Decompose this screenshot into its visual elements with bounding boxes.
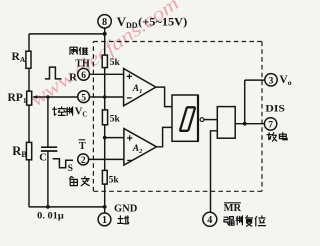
wire divider rail — [104, 34, 106, 213]
pin 7 circle — [264, 118, 276, 130]
svg-text:C: C — [39, 153, 47, 164]
wire VDD top — [29, 33, 105, 35]
svg-text:7: 7 — [268, 121, 273, 131]
svg-text:5: 5 — [81, 93, 86, 103]
label MR bar — [224, 202, 241, 204]
svg-text:T: T — [79, 141, 86, 152]
dashed IC boundary box — [93, 42, 262, 192]
wire A2 output — [157, 127, 173, 146]
label ground chinese — [118, 216, 129, 224]
pin 3 circle — [265, 74, 277, 86]
resistor RA — [26, 51, 31, 68]
svg-text:MR: MR — [224, 203, 242, 214]
wire pin8 stem — [104, 28, 106, 34]
wire A1 output — [156, 87, 172, 107]
wire Vo branch — [245, 80, 265, 124]
svg-text:1: 1 — [102, 215, 107, 226]
svg-text:5k: 5k — [109, 176, 120, 186]
output stage box — [217, 107, 235, 139]
node rail-bus junction — [103, 205, 107, 209]
resistor 5k upper — [102, 55, 107, 68]
svg-text:(+5~15V): (+5~15V) — [138, 17, 187, 29]
svg-text:0. 01μ: 0. 01μ — [37, 212, 64, 222]
node divider 1/3 junction — [103, 136, 107, 140]
wire reset MR — [211, 131, 218, 213]
label discharge chinese — [267, 133, 287, 142]
node cap-bus junction — [46, 205, 50, 209]
pin 4 circle — [203, 212, 217, 226]
node control junction — [46, 95, 50, 99]
node VDD junction — [103, 32, 107, 36]
pin 1 circle — [98, 213, 111, 226]
wire trigger reference row — [105, 137, 124, 139]
comparator A1 — [124, 69, 156, 106]
svg-text:GND: GND — [114, 203, 138, 214]
potentiometer RP1 — [27, 91, 32, 105]
wire control row — [48, 96, 124, 98]
label trigger chinese — [70, 176, 90, 185]
pin 6 circle — [78, 68, 90, 80]
resistor RB — [26, 142, 31, 159]
wire bubble to output stage — [204, 119, 217, 121]
resistor 5k middle — [102, 110, 107, 125]
wire control cap upper — [47, 97, 49, 147]
flip-flop box — [172, 95, 198, 141]
svg-text:DIS: DIS — [265, 104, 285, 114]
capacitor C — [41, 147, 58, 151]
svg-text:TH: TH — [75, 58, 90, 69]
svg-text:3: 3 — [269, 77, 274, 87]
pin 5 circle — [78, 91, 90, 103]
node divider 2/3 junction — [103, 95, 107, 99]
svg-text:6: 6 — [81, 71, 86, 81]
waveform pulse at TH — [45, 67, 62, 79]
waveform pulse at trigger — [53, 159, 73, 168]
svg-text:4: 4 — [207, 215, 212, 226]
node output junction — [243, 122, 247, 126]
pin 2 circle — [78, 154, 89, 165]
comparator A2 — [124, 129, 157, 166]
label T bar — [79, 139, 86, 141]
svg-text:2: 2 — [81, 156, 86, 166]
wire control cap lower — [47, 151, 49, 207]
pin 8 circle — [98, 15, 111, 28]
inverter bubble — [200, 118, 204, 122]
wire trigger row — [89, 158, 124, 160]
svg-text:5k: 5k — [110, 58, 121, 68]
resistor 5k lower — [102, 170, 107, 184]
wire threshold row — [89, 73, 123, 75]
svg-text:S: S — [68, 164, 73, 174]
wiper arrow of RP1 — [36, 96, 48, 98]
wire left rail — [28, 34, 30, 207]
svg-text:8: 8 — [102, 17, 107, 28]
svg-text:5k: 5k — [110, 115, 121, 125]
hysteresis symbol — [180, 107, 196, 131]
svg-text:R: R — [69, 73, 77, 84]
wire ground bus — [29, 206, 105, 208]
wire output row — [235, 123, 264, 125]
label threshold chinese — [70, 47, 88, 54]
label control chinese VC — [53, 107, 73, 115]
label forced reset chinese — [224, 216, 266, 226]
